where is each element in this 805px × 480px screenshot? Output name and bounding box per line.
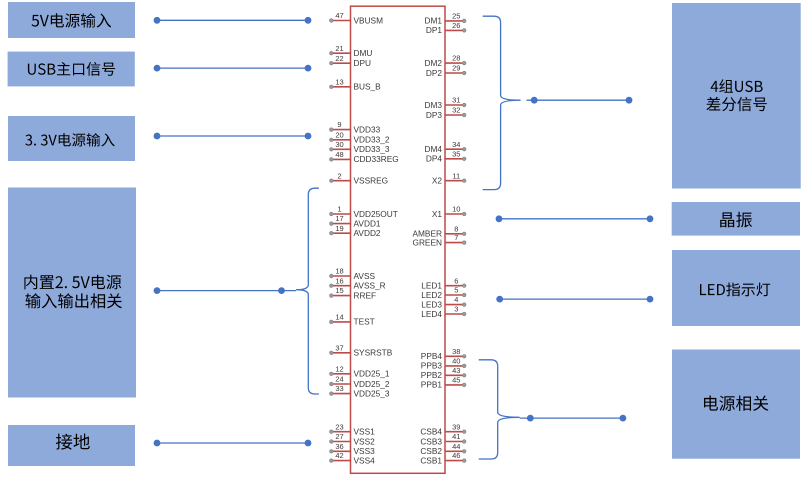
svg-text:GREEN: GREEN xyxy=(412,237,442,247)
svg-text:AVSS_R: AVSS_R xyxy=(354,281,386,291)
svg-text:AVDD2: AVDD2 xyxy=(354,228,381,238)
svg-text:21: 21 xyxy=(335,44,343,53)
svg-text:CSB1: CSB1 xyxy=(420,455,442,465)
svg-text:VSS1: VSS1 xyxy=(354,427,376,437)
IC U1: 48-pin USB hub controller body xyxy=(351,6,446,473)
svg-text:LED2: LED2 xyxy=(421,290,442,300)
wire 3.3V power input net xyxy=(154,133,312,140)
wire crystal net xyxy=(496,215,654,222)
label box 4组USB差分信号 xyxy=(672,3,801,189)
svg-text:39: 39 xyxy=(452,422,460,431)
svg-text:4: 4 xyxy=(454,295,458,304)
svg-text:10: 10 xyxy=(452,205,460,214)
svg-text:VDD33_3: VDD33_3 xyxy=(354,144,390,154)
svg-text:40: 40 xyxy=(452,357,460,366)
label box USB主口信号 xyxy=(8,52,135,87)
svg-text:LED4: LED4 xyxy=(421,309,442,319)
svg-text:12: 12 xyxy=(335,364,343,373)
wire ground net xyxy=(154,440,312,447)
pin 7 GREEN (right) xyxy=(412,233,466,247)
svg-text:28: 28 xyxy=(452,54,460,63)
pin 43 PPB2 (right) xyxy=(421,366,466,380)
label box 晶振 xyxy=(672,202,800,236)
svg-text:DM3: DM3 xyxy=(424,100,442,110)
pin 47 VBUSM (left) xyxy=(330,11,384,25)
label box LED指示灯 xyxy=(672,250,800,326)
svg-text:VDD33_2: VDD33_2 xyxy=(354,135,390,145)
pin 11 X2 (right) xyxy=(432,171,466,185)
svg-text:47: 47 xyxy=(335,11,343,20)
pin 23 VSS1 (left) xyxy=(330,422,376,436)
svg-text:VDD25_1: VDD25_1 xyxy=(354,369,390,379)
svg-text:AVSS: AVSS xyxy=(354,271,376,281)
svg-text:3: 3 xyxy=(454,305,458,314)
pin 20 VDD33_2 (left) xyxy=(330,130,390,144)
svg-text:SYSRSTB: SYSRSTB xyxy=(354,348,393,358)
svg-text:VDD25OUT: VDD25OUT xyxy=(354,209,398,219)
wire LED indicator net xyxy=(496,296,653,303)
pin 28 DM2 (right) xyxy=(424,54,466,68)
pin 5 LED2 (right) xyxy=(421,286,466,300)
label box 5V电源输入 xyxy=(8,2,135,38)
svg-text:23: 23 xyxy=(335,422,343,431)
svg-text:CSB4: CSB4 xyxy=(420,427,442,437)
pin 3 LED4 (right) xyxy=(421,305,466,319)
pin 27 VSS2 (left) xyxy=(330,432,376,446)
pin 37 SYSRSTB (left) xyxy=(330,343,393,357)
pin 40 PPB3 (right) xyxy=(421,357,466,371)
wire USB upstream signal net xyxy=(154,65,312,72)
svg-text:43: 43 xyxy=(452,366,460,375)
pin 16 AVSS_R (left) xyxy=(330,276,386,290)
svg-text:DP1: DP1 xyxy=(426,25,443,35)
svg-text:VBUSM: VBUSM xyxy=(354,15,384,25)
pin 45 PPB1 (right) xyxy=(421,376,466,390)
svg-text:DP3: DP3 xyxy=(426,110,443,120)
pin 22 DPU (left) xyxy=(330,54,372,68)
label box 内置2.5V电源输入输出相关 xyxy=(8,188,136,398)
svg-text:8: 8 xyxy=(454,224,458,233)
brace 2.5V power pin group xyxy=(296,188,319,394)
pin 10 X1 (right) xyxy=(432,205,466,219)
svg-text:20: 20 xyxy=(335,130,343,139)
svg-text:9: 9 xyxy=(337,120,341,129)
label box 接地 xyxy=(8,425,135,466)
pin 48 CDD33REG (left) xyxy=(330,150,399,164)
svg-text:26: 26 xyxy=(452,21,460,30)
svg-text:30: 30 xyxy=(335,140,343,149)
pin 19 AVDD2 (left) xyxy=(330,224,381,238)
svg-text:17: 17 xyxy=(335,214,343,223)
pin 30 VDD33_3 (left) xyxy=(330,140,390,154)
svg-text:25: 25 xyxy=(452,12,460,21)
pin 41 CSB3 (right) xyxy=(420,432,466,446)
svg-text:6: 6 xyxy=(454,276,458,285)
svg-text:37: 37 xyxy=(335,343,343,352)
pin 13 BUS_B (left) xyxy=(330,77,382,91)
svg-text:CSB3: CSB3 xyxy=(420,436,442,446)
svg-text:RREF: RREF xyxy=(354,290,377,300)
svg-text:24: 24 xyxy=(335,375,343,384)
svg-text:45: 45 xyxy=(452,376,460,385)
svg-text:VDD25_2: VDD25_2 xyxy=(354,379,390,389)
svg-text:46: 46 xyxy=(452,451,460,460)
pin 29 DP2 (right) xyxy=(426,64,466,78)
brace USB differential pin group xyxy=(483,16,521,189)
svg-text:35: 35 xyxy=(452,149,460,158)
pin 12 VDD25_1 (left) xyxy=(330,364,390,378)
svg-text:27: 27 xyxy=(335,432,343,441)
svg-text:36: 36 xyxy=(335,442,343,451)
pin 39 CSB4 (right) xyxy=(420,422,466,436)
svg-text:31: 31 xyxy=(452,96,460,105)
svg-text:42: 42 xyxy=(335,451,343,460)
svg-text:VDD25_3: VDD25_3 xyxy=(354,388,390,398)
pin 8 AMBER (right) xyxy=(412,224,466,238)
svg-text:48: 48 xyxy=(335,150,343,159)
svg-text:DPU: DPU xyxy=(354,58,372,68)
wire 2.5V power group net xyxy=(154,287,296,294)
svg-text:VDD33: VDD33 xyxy=(354,124,381,134)
label box 电源相关 xyxy=(672,350,800,459)
label box 3.3V电源输入 xyxy=(8,116,135,161)
pin 42 VSS4 (left) xyxy=(330,451,376,465)
svg-text:X1: X1 xyxy=(432,209,443,219)
svg-text:18: 18 xyxy=(335,267,343,276)
svg-text:33: 33 xyxy=(335,384,343,393)
svg-text:VSS4: VSS4 xyxy=(354,455,376,465)
svg-text:11: 11 xyxy=(452,171,460,180)
svg-text:PPB1: PPB1 xyxy=(421,380,443,390)
pin 24 VDD25_2 (left) xyxy=(330,375,390,389)
svg-text:DMU: DMU xyxy=(354,48,373,58)
pin 25 DM1 (right) xyxy=(424,12,466,26)
svg-text:DP4: DP4 xyxy=(426,154,443,164)
svg-text:DP2: DP2 xyxy=(426,68,443,78)
svg-text:VSS2: VSS2 xyxy=(354,436,376,446)
wire 5V power input net xyxy=(154,17,312,24)
pin 44 CSB2 (right) xyxy=(420,442,466,456)
pin 2 VSSREG (left) xyxy=(330,171,389,185)
brace power control pin group xyxy=(479,360,520,459)
svg-text:DM2: DM2 xyxy=(424,58,442,68)
svg-text:AVDD1: AVDD1 xyxy=(354,218,381,228)
svg-text:2: 2 xyxy=(337,171,341,180)
svg-text:34: 34 xyxy=(452,140,460,149)
pin 33 VDD25_3 (left) xyxy=(330,384,390,398)
pin 35 DP4 (right) xyxy=(426,149,466,163)
svg-text:38: 38 xyxy=(452,347,460,356)
pin 26 DP1 (right) xyxy=(426,21,466,35)
pin 17 AVDD1 (left) xyxy=(330,214,381,228)
svg-text:41: 41 xyxy=(452,432,460,441)
svg-text:22: 22 xyxy=(335,54,343,63)
pin 32 DP3 (right) xyxy=(426,106,466,120)
wire power group net xyxy=(520,415,627,422)
pin 1 VDD25OUT (left) xyxy=(330,205,398,219)
pin 4 LED3 (right) xyxy=(421,295,466,309)
svg-text:X2: X2 xyxy=(432,176,443,186)
svg-text:BUS_B: BUS_B xyxy=(354,82,382,92)
pin 21 DMU (left) xyxy=(330,44,373,58)
pin 34 DM4 (right) xyxy=(424,140,466,154)
svg-text:44: 44 xyxy=(452,442,460,451)
pin 36 VSS3 (left) xyxy=(330,442,376,456)
pin 6 LED1 (right) xyxy=(421,276,466,290)
pin 18 AVSS (left) xyxy=(330,267,376,281)
svg-text:1: 1 xyxy=(337,205,341,214)
svg-text:15: 15 xyxy=(335,286,343,295)
pin 38 PPB4 (right) xyxy=(421,347,466,361)
svg-text:14: 14 xyxy=(335,313,343,322)
svg-text:VSSREG: VSSREG xyxy=(354,176,389,186)
svg-text:PPB2: PPB2 xyxy=(421,370,443,380)
svg-text:13: 13 xyxy=(335,77,343,86)
svg-text:7: 7 xyxy=(454,233,458,242)
svg-text:5: 5 xyxy=(454,286,458,295)
svg-text:CDD33REG: CDD33REG xyxy=(354,154,399,164)
svg-text:DM4: DM4 xyxy=(424,144,442,154)
pin 14 TEST (left) xyxy=(330,313,375,327)
pin 31 DM3 (right) xyxy=(424,96,466,110)
pin 46 CSB1 (right) xyxy=(420,451,466,465)
svg-text:DM1: DM1 xyxy=(424,16,442,26)
svg-text:29: 29 xyxy=(452,64,460,73)
pin 9 VDD33 (left) xyxy=(330,120,381,134)
pin 15 RREF (left) xyxy=(330,286,377,300)
wire USB differential group net xyxy=(527,97,633,104)
svg-text:TEST: TEST xyxy=(354,317,375,327)
svg-text:32: 32 xyxy=(452,106,460,115)
svg-text:16: 16 xyxy=(335,276,343,285)
svg-text:PPB4: PPB4 xyxy=(421,351,443,361)
svg-text:19: 19 xyxy=(335,224,343,233)
